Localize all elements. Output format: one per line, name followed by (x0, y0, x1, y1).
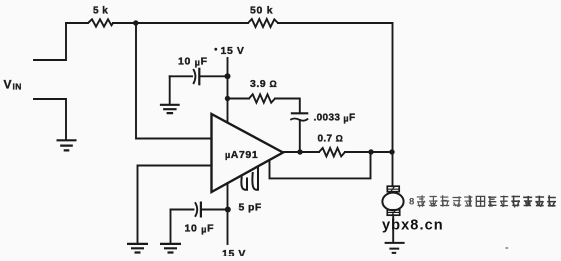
label R3 value 3.9 ohm (250, 78, 277, 90)
node G bottom bypass junction dot (225, 207, 231, 213)
label R2 value 50 k (250, 5, 273, 17)
wire C3 to ground G4 (170, 210, 172, 244)
wire node A down to inverting input (136, 23, 212, 139)
wire right feedback rail down to output node (392, 23, 394, 152)
node A summing junction dot (133, 20, 138, 25)
svg-text:8: 8 (409, 197, 414, 208)
resistor R3 3.9 ohm zigzag (249, 94, 275, 102)
wire rail down to motor (392, 152, 394, 186)
label Chinese caption: 8-pin or 6-pin package DC servo motor (409, 195, 556, 207)
svg-text:.0033 µF: .0033 µF (314, 113, 356, 124)
label C1 value 10 uF (178, 56, 208, 68)
capacitor C3 plates (curved + straight) (195, 202, 201, 218)
wire non-inverting input to ground (138, 166, 212, 244)
wire node A to R2 (136, 22, 248, 24)
label C4 value 5 pF (239, 202, 262, 214)
svg-text:15 V: 15 V (222, 248, 246, 256)
label R1 value 5 k (93, 6, 108, 17)
svg-text:50 k: 50 k (250, 5, 273, 17)
node D output junction dot (297, 149, 302, 154)
label U1 designator uA791 (225, 149, 258, 161)
wire VIN upper stub to 5k (34, 23, 66, 60)
wire C1 to ground G2 (169, 76, 171, 104)
wire R1 to node A (113, 22, 136, 24)
label C3 value 10 uF (185, 223, 215, 235)
label negative supply 15 V (clipped at bottom) (222, 248, 246, 260)
svg-text:5 k: 5 k (93, 6, 108, 17)
svg-text:ybx8.cn: ybx8.cn (382, 217, 444, 233)
svg-text:5 pF: 5 pF (239, 202, 262, 214)
node VIN input terminal label (4, 78, 22, 92)
capacitor C3 10uF leads (171, 209, 228, 211)
node B bypass junction dot (225, 73, 231, 79)
label C2 value .0033 uF (314, 113, 356, 124)
motor M1 top brush block (387, 186, 399, 192)
wire R4 to load rail (345, 151, 393, 153)
resistor R3 3.9 ohm leads (228, 99, 300, 114)
svg-text:10 µF: 10 µF (178, 56, 208, 68)
node F rail junction dot (389, 149, 394, 154)
motor M1 bottom brush block (387, 210, 399, 215)
resistor R4 0.7 ohm zigzag (319, 148, 345, 156)
resistor R2 50 k (248, 19, 278, 27)
ground G4 bottom bypass (160, 244, 181, 253)
svg-text:µA791: µA791 (225, 149, 258, 161)
node C 3.9ohm junction dot (225, 96, 230, 101)
wire R2 to right rail corner (278, 22, 393, 24)
wire top-left lead into R1 (66, 22, 88, 24)
wire motor to ground G5 (392, 215, 394, 242)
wire sense feedback loop (270, 152, 371, 178)
node E sense junction dot (368, 149, 373, 154)
wire -15V rail from op-amp bottom edge (227, 183, 229, 244)
motor M1 body (382, 193, 403, 211)
capacitor C4 5pF compensation hooks (241, 166, 258, 190)
wire +15V rail into op-amp top edge (227, 58, 229, 123)
svg-text:0.7 Ω: 0.7 Ω (318, 134, 344, 145)
op-amp U1 uA791 triangle body (212, 114, 284, 192)
wire C2 down to output node D (299, 120, 301, 152)
wire VIN lower stub to ground (34, 99, 66, 140)
ground G5 motor return (385, 243, 405, 253)
label R4 value 0.7 ohm (318, 134, 344, 145)
ground G1 on VIN return (57, 140, 77, 150)
label positive supply +15 V tick (214, 48, 217, 51)
capacitor C2 .0033uF plates (290, 113, 308, 120)
label positive supply 15 V (221, 45, 245, 57)
svg-text:10 µF: 10 µF (185, 223, 215, 235)
resistor R1 5k (88, 19, 113, 26)
capacitor C1 plates (curved + straight) (193, 68, 199, 86)
label watermark ybx8.cn (382, 217, 444, 233)
svg-text:3.9 Ω: 3.9 Ω (250, 78, 277, 90)
wire op-amp output to R4 (283, 151, 319, 153)
ground G2 top bypass (160, 105, 180, 113)
svg-text:15 V: 15 V (221, 45, 245, 57)
ground G3 on non-inverting input (127, 244, 148, 253)
speck scan artifact (506, 247, 509, 249)
capacitor C1 10uF leads (170, 75, 228, 77)
